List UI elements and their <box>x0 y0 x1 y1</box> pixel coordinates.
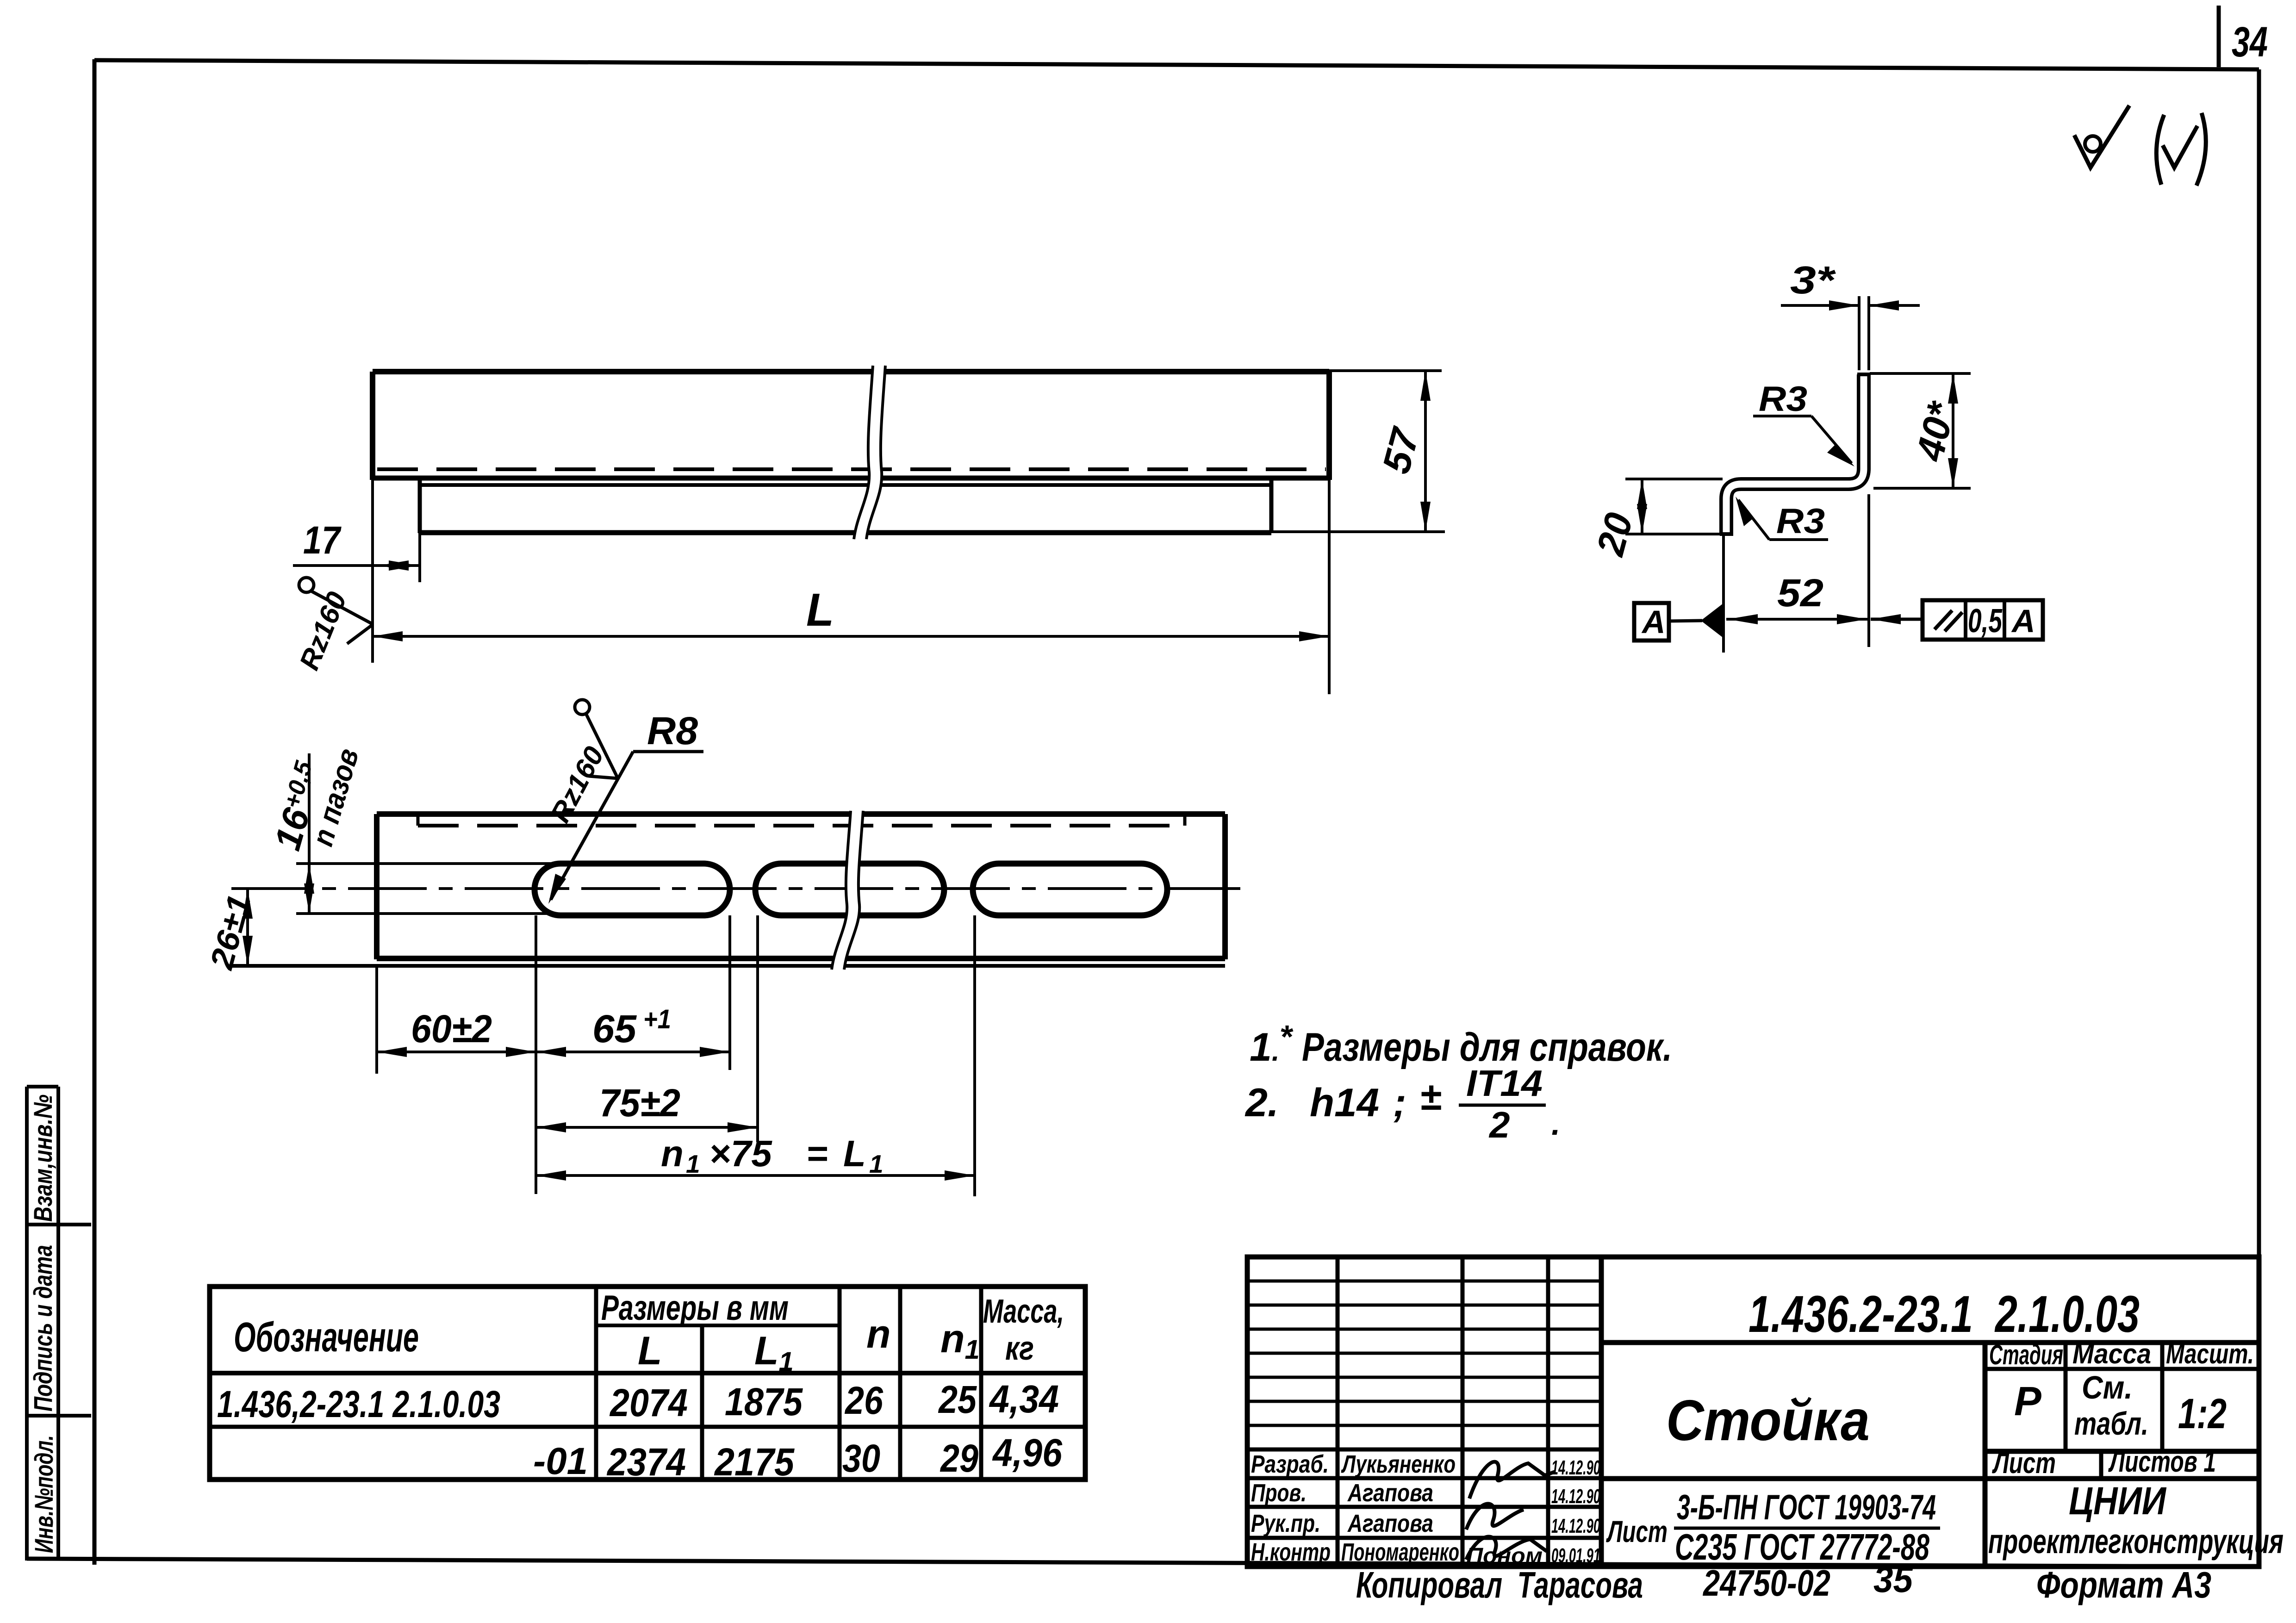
upper R3 leader <box>1753 379 1854 466</box>
dim n1x75=L1 line <box>536 1174 975 1177</box>
svg-text:1.436.2-23.1 2.1.0.03: 1.436.2-23.1 2.1.0.03 <box>1748 1285 2140 1343</box>
svg-text:Агапова: Агапова <box>1347 1510 1433 1537</box>
svg-text:A: A <box>2011 603 2035 639</box>
svg-text:Масшт.: Масшт. <box>2166 1338 2254 1369</box>
surface finish symbol with circle <box>2074 106 2129 168</box>
left margin cell column lines <box>25 1087 29 1561</box>
svg-text:4,34: 4,34 <box>989 1377 1059 1421</box>
extension line slot1 right <box>728 915 731 1070</box>
signature scribble 2 <box>1466 1504 1524 1530</box>
bar bottom edge <box>373 476 1329 481</box>
svg-text:1875: 1875 <box>725 1380 803 1424</box>
svg-text:A: A <box>1641 604 1666 640</box>
title block verticals left part <box>1336 1257 1340 1567</box>
dim 17 extension lines <box>371 480 374 663</box>
svg-text:h14: h14 <box>1310 1081 1379 1125</box>
dim L line <box>373 635 1329 638</box>
dim 60+-2 line <box>377 1051 536 1053</box>
step connector left <box>417 814 420 826</box>
lower R3 leader <box>1736 497 1828 541</box>
svg-text:L: L <box>806 584 834 636</box>
drawing frame bottom border <box>27 1559 2259 1567</box>
fraction line <box>1674 1527 1940 1530</box>
svg-text:1:2: 1:2 <box>2178 1390 2227 1437</box>
surface finish symbol in parentheses <box>2156 113 2206 186</box>
svg-text:Взам,инв.№: Взам,инв.№ <box>28 1094 57 1222</box>
rear flange bottom edge <box>420 530 1271 535</box>
svg-text:24750-02: 24750-02 <box>1702 1562 1830 1604</box>
dim 75+-2 line <box>536 1126 758 1129</box>
dim L extension right <box>1328 480 1331 694</box>
drawing frame left border <box>93 59 97 1565</box>
break gap white-out <box>854 366 885 539</box>
break line right <box>844 811 863 970</box>
svg-text:Лист: Лист <box>1992 1446 2056 1480</box>
plan top edge <box>377 811 1225 817</box>
step connector right <box>1183 814 1187 826</box>
svg-text:Инв.№подл.: Инв.№подл. <box>29 1435 58 1553</box>
svg-text:1.436,2-23.1 2.1.0.03: 1.436,2-23.1 2.1.0.03 <box>217 1383 500 1425</box>
svg-text:Лукьяненко: Лукьяненко <box>1341 1450 1456 1478</box>
break line left <box>854 366 873 539</box>
svg-text:n: n <box>866 1312 891 1356</box>
dim 65+1 line <box>536 1051 730 1053</box>
svg-text:2.: 2. <box>1244 1081 1279 1125</box>
svg-text:табл.: табл. <box>2074 1405 2148 1442</box>
svg-text:±: ± <box>1420 1075 1441 1118</box>
extension line slot1 left <box>535 915 537 1194</box>
plan view outline <box>231 814 1225 966</box>
left margin cell dividers <box>27 1085 58 1088</box>
svg-text:.: . <box>1551 1106 1560 1142</box>
rear flange right edge <box>1269 480 1274 533</box>
datum A box <box>1634 603 1669 640</box>
svg-text:14.12.90: 14.12.90 <box>1551 1515 1600 1537</box>
dim 3* extension lines <box>1858 296 1860 370</box>
drawing frame right border <box>2257 69 2261 1565</box>
svg-text:Масса: Масса <box>2072 1338 2151 1369</box>
datum A leader <box>1669 621 1702 621</box>
datum A extension line <box>1722 534 1725 653</box>
svg-text:Агапова: Агапова <box>1347 1479 1433 1507</box>
svg-text:2: 2 <box>1488 1104 1510 1145</box>
svg-text:-01: -01 <box>533 1440 588 1482</box>
rear flange left edge <box>418 480 422 533</box>
svg-text:Лист: Лист <box>1606 1514 1668 1548</box>
right part structure <box>1601 1340 2259 1345</box>
R8 leader with roughness <box>544 700 703 904</box>
svg-text:Стойка: Стойка <box>1666 1389 1870 1453</box>
break gap white-out <box>832 811 863 970</box>
svg-text:R3: R3 <box>1776 502 1825 541</box>
table verticals <box>594 1287 598 1480</box>
svg-text:Размеры в мм: Размеры в мм <box>601 1288 789 1328</box>
svg-text:4,96: 4,96 <box>992 1431 1063 1474</box>
roughness Rz160 at left <box>293 578 373 674</box>
rear flange top line <box>420 483 1271 487</box>
break line left <box>832 811 851 970</box>
dim 20 extension lines <box>1625 478 1723 480</box>
dim 52 line <box>1726 618 1869 621</box>
top view: channel bar outline <box>373 372 1329 533</box>
hidden dashed line at top <box>418 824 1185 827</box>
svg-text:0,5: 0,5 <box>1968 603 2003 640</box>
plan left edge <box>374 814 380 959</box>
svg-text:+1: +1 <box>643 1004 671 1034</box>
svg-text:Листов 1: Листов 1 <box>2108 1445 2216 1478</box>
svg-text:См.: См. <box>2082 1369 2133 1405</box>
title block outline <box>1247 1257 2259 1567</box>
svg-text:P: P <box>2014 1378 2041 1424</box>
svg-text:3*: 3* <box>1790 258 1836 302</box>
svg-text:30: 30 <box>842 1436 880 1480</box>
signature scribble 3 <box>1466 1536 1547 1560</box>
extension line slot2 left <box>756 915 759 1142</box>
svg-text:L: L <box>638 1329 662 1373</box>
tolerance frame leader <box>1871 618 1923 621</box>
break line right <box>866 366 885 539</box>
signature scribble 1 <box>1469 1462 1555 1499</box>
dim 3* line with outside arrows <box>1781 304 1859 307</box>
svg-text:2374: 2374 <box>606 1440 686 1484</box>
extension line below view left edge <box>375 967 378 1074</box>
svg-text:Н.контр: Н.контр <box>1251 1538 1331 1566</box>
svg-text:3-Б-ПН ГОСТ 19903-74: 3-Б-ПН ГОСТ 19903-74 <box>1677 1488 1936 1527</box>
dim 52 right extension <box>1867 494 1870 647</box>
fold line below bottom edge <box>231 964 1225 968</box>
svg-text:14.12.90: 14.12.90 <box>1551 1456 1600 1479</box>
extension line slot3 left <box>973 915 976 1196</box>
svg-text:60±2: 60±2 <box>411 1007 492 1051</box>
svg-text:75±2: 75±2 <box>599 1081 680 1125</box>
plan right edge <box>1222 814 1228 959</box>
drawing frame top border <box>94 60 2259 69</box>
left part row lines <box>1247 1280 1601 1283</box>
dim 16+0.5 vertical line <box>308 753 311 914</box>
cross-section Z profile (sheet) <box>1726 374 1864 534</box>
svg-text:;: ; <box>1393 1081 1406 1125</box>
svg-text:Копировал Тарасова: Копировал Тарасова <box>1356 1564 1643 1605</box>
svg-text:Масса,: Масса, <box>983 1293 1064 1330</box>
svg-text:Обозначение: Обозначение <box>234 1314 419 1361</box>
datum A filled triangle <box>1701 602 1725 639</box>
slot 1 <box>535 864 730 915</box>
slot 3 <box>973 864 1167 915</box>
parameter table outline <box>210 1287 1085 1480</box>
parallelism tolerance frame <box>1923 600 2043 640</box>
bar right edge <box>1326 372 1332 480</box>
svg-text:R8: R8 <box>647 709 698 752</box>
plan bottom edge <box>377 956 1225 961</box>
svg-text:Формат А3: Формат А3 <box>2036 1564 2211 1605</box>
dim 17 line <box>293 564 420 567</box>
svg-text:29: 29 <box>940 1436 978 1480</box>
dim 57 line <box>1424 371 1427 532</box>
svg-text:Пров.: Пров. <box>1251 1479 1307 1507</box>
slot 2 <box>755 864 944 915</box>
svg-text:35: 35 <box>1873 1559 1913 1600</box>
dim 16+0.5 extension lines <box>296 862 558 865</box>
svg-text:2074: 2074 <box>609 1381 688 1424</box>
svg-text:2175: 2175 <box>714 1440 795 1484</box>
dim 57 extension lines <box>1329 369 1442 372</box>
svg-text:Разраб.: Разраб. <box>1251 1450 1329 1478</box>
svg-text:26: 26 <box>844 1379 884 1422</box>
svg-text:Подпись и дата: Подпись и дата <box>28 1245 57 1412</box>
svg-text:R3: R3 <box>1759 379 1807 419</box>
slots centerline <box>231 887 1240 890</box>
table horizontals <box>596 1324 840 1327</box>
bar top edge <box>373 369 1329 374</box>
hidden fold line dashed <box>377 467 1326 471</box>
svg-text:IT14: IT14 <box>1466 1063 1543 1104</box>
svg-text:34: 34 <box>2232 19 2268 66</box>
svg-text:ЦНИИ: ЦНИИ <box>2069 1479 2166 1523</box>
bar left edge <box>370 372 375 480</box>
svg-text:52: 52 <box>1777 571 1823 615</box>
dim 26+-1 vertical line <box>246 889 249 966</box>
dim 40* extension lines <box>1870 372 1971 375</box>
dim 20 line <box>1641 479 1643 534</box>
svg-text:кг: кг <box>1005 1330 1034 1367</box>
sheet number tick <box>2217 6 2221 67</box>
svg-text:17: 17 <box>303 518 342 562</box>
dim 40* line <box>1952 373 1954 488</box>
svg-text:Стадия: Стадия <box>1989 1339 2063 1370</box>
svg-text:Пономаренко: Пономаренко <box>1341 1538 1459 1566</box>
svg-text:проектлегконструкция: проектлегконструкция <box>1988 1522 2284 1561</box>
svg-text:Рук.пр.: Рук.пр. <box>1251 1510 1320 1537</box>
svg-text:25: 25 <box>938 1378 977 1421</box>
svg-text:14.12.90: 14.12.90 <box>1551 1485 1600 1508</box>
svg-text:09.01.91: 09.01.91 <box>1551 1544 1600 1567</box>
svg-text:65: 65 <box>592 1007 637 1051</box>
